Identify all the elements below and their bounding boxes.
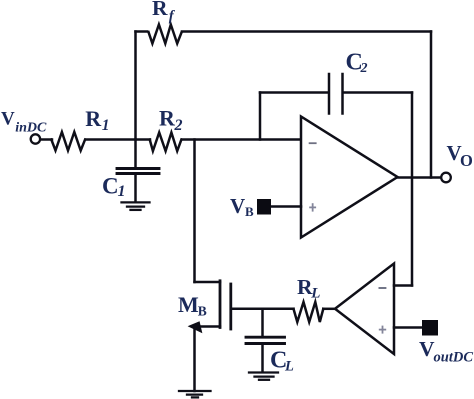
wire <box>394 326 422 329</box>
op-amp U1 <box>301 117 398 238</box>
wire <box>134 32 137 140</box>
terminal VinDC <box>31 134 40 143</box>
ground <box>179 391 211 397</box>
label RL <box>297 275 320 301</box>
svg-text:B: B <box>198 303 207 318</box>
svg-text:R: R <box>85 106 102 131</box>
U1 plus pin <box>309 203 316 211</box>
capacitor CL <box>246 337 285 343</box>
wire <box>231 308 294 311</box>
svg-text:1: 1 <box>102 117 110 134</box>
label Rf <box>152 0 176 25</box>
label C1 <box>102 174 126 201</box>
wire <box>195 325 221 328</box>
svg-text:V: V <box>1 109 15 130</box>
svg-text:L: L <box>310 285 320 301</box>
label VinDC <box>1 109 47 136</box>
capacitor C2 <box>329 74 343 114</box>
label MB <box>178 292 207 318</box>
svg-text:R: R <box>152 0 168 20</box>
label R1 <box>85 106 109 134</box>
source arrow <box>190 322 202 331</box>
node VoutDC square <box>422 320 438 336</box>
svg-text:inDC: inDC <box>15 121 47 136</box>
wire <box>134 175 137 202</box>
wire <box>323 308 335 311</box>
wire <box>259 93 262 140</box>
wire <box>261 309 264 336</box>
label VoutDC <box>419 337 473 366</box>
resistor RL <box>294 302 324 322</box>
wire <box>134 140 137 168</box>
wire <box>271 205 301 208</box>
op-amp U2 <box>335 264 394 355</box>
wire <box>260 91 328 94</box>
wire <box>394 284 412 287</box>
wire <box>182 138 301 141</box>
wire <box>86 138 150 141</box>
label R2 <box>159 106 183 135</box>
ground <box>122 202 150 210</box>
wire <box>261 345 264 372</box>
ground <box>249 373 278 380</box>
wire <box>398 176 442 179</box>
label VB <box>230 194 254 219</box>
resistor R1 <box>51 132 85 151</box>
U2 plus pin <box>379 326 386 334</box>
svg-text:O: O <box>460 151 473 170</box>
wire <box>195 281 221 284</box>
wire <box>411 93 414 286</box>
svg-text:C: C <box>102 174 119 199</box>
U1 minus pin <box>309 142 317 144</box>
transistor MB <box>220 281 231 329</box>
wire <box>136 30 148 33</box>
wire <box>193 140 196 283</box>
capacitor C1 <box>117 169 159 174</box>
svg-text:2: 2 <box>174 117 183 134</box>
svg-text:2: 2 <box>360 61 368 76</box>
wire <box>430 32 433 178</box>
wire <box>344 91 412 94</box>
resistor Rf <box>149 25 182 44</box>
svg-text:R: R <box>159 106 176 131</box>
label CL <box>270 347 294 374</box>
svg-text:M: M <box>178 292 199 317</box>
svg-text:B: B <box>245 204 254 219</box>
label VO <box>447 141 474 170</box>
resistor R2 <box>150 133 182 152</box>
wire <box>40 138 52 141</box>
label C2 <box>346 50 368 77</box>
wire <box>182 30 431 33</box>
svg-text:outDC: outDC <box>434 350 474 366</box>
svg-text:V: V <box>230 194 245 218</box>
wire <box>193 327 196 392</box>
svg-text:L: L <box>284 359 294 375</box>
U2 minus pin <box>379 287 387 289</box>
terminal VO <box>441 173 451 183</box>
node VB square <box>257 199 271 215</box>
svg-text:1: 1 <box>118 183 126 200</box>
